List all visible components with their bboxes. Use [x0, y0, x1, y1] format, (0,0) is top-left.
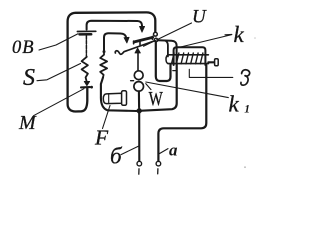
contact platform bar M — [81, 86, 93, 89]
coil winding hatch — [172, 53, 203, 64]
wire coil right down to terminal a — [158, 65, 206, 161]
svg-text:0B: 0B — [12, 38, 35, 58]
bell symbol Z glyph — [241, 70, 250, 85]
svg-text:1: 1 — [244, 103, 250, 115]
pointer line k1 — [146, 82, 229, 98]
label b — [110, 143, 123, 168]
svg-text:k: k — [234, 22, 245, 47]
wire hook loop under pivot — [156, 42, 171, 81]
label OB — [12, 38, 35, 58]
wire junction to terminal b — [138, 114, 140, 162]
pointer line a — [159, 149, 168, 154]
node pivot circle A — [154, 32, 158, 36]
pointer line M — [34, 89, 85, 116]
resistor S zigzag — [82, 57, 88, 82]
armature spring bar U — [115, 41, 154, 54]
wire inner loop 2 with arrow — [103, 33, 130, 53]
wire pivot B to coil — [158, 40, 177, 64]
pointer line k — [178, 34, 232, 47]
svg-text:a: a — [169, 140, 178, 159]
label W — [149, 87, 163, 110]
paper speck — [254, 37, 256, 39]
terminal b ring — [137, 161, 142, 174]
label k — [234, 22, 245, 47]
wire outer frame loop — [68, 12, 156, 111]
label M — [18, 112, 37, 134]
pointer line OB — [39, 34, 78, 50]
pointer line W — [146, 84, 151, 90]
label a — [169, 140, 178, 159]
svg-text:U: U — [192, 6, 207, 27]
pointer line U — [144, 23, 192, 46]
wire W to junction — [138, 91, 140, 107]
label S — [23, 65, 35, 91]
label k1 — [229, 91, 250, 116]
paper speck — [244, 166, 246, 168]
resistor zigzag 2 — [100, 53, 107, 77]
interrupter ball W upper — [134, 71, 143, 80]
node pivot circle B — [154, 38, 158, 42]
svg-text:W: W — [149, 87, 163, 110]
arrow up at armature — [135, 48, 141, 71]
svg-text:F: F — [94, 126, 109, 150]
pointer line F — [103, 106, 111, 129]
svg-text:M: M — [18, 112, 37, 134]
contact tick left — [131, 80, 134, 82]
wire from resistor2 to fuse F — [101, 77, 137, 111]
armature upper contact bar — [134, 36, 153, 45]
wire coil left down to bottom — [142, 64, 177, 111]
svg-text:k: k — [229, 91, 240, 116]
contact arrow M — [84, 81, 90, 85]
label U — [192, 6, 207, 27]
pointer line b — [121, 146, 138, 154]
pointer line S — [37, 64, 81, 81]
pointer line Z (bell) — [189, 69, 233, 77]
junction node — [136, 108, 142, 114]
capacitor OB (electrode plates) — [77, 31, 95, 56]
interrupter ball W lower — [134, 82, 144, 92]
coil k core tube — [166, 55, 208, 64]
fuse F cylinder — [103, 91, 126, 106]
svg-text:S: S — [23, 65, 35, 91]
wire inner loop to armature (arrow down) — [87, 21, 145, 33]
coil k bobbin frame — [174, 47, 206, 65]
svg-text:б: б — [110, 143, 123, 168]
terminal a ring — [156, 161, 161, 174]
binding post at coil right — [208, 59, 218, 66]
label F — [94, 126, 109, 150]
